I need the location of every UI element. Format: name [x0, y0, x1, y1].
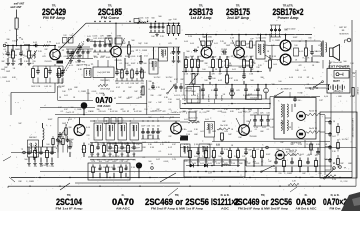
svg-text:0.01: 0.01 [105, 161, 109, 163]
svg-text:1.5K: 1.5K [90, 154, 95, 156]
svg-text:R,, 2.2K: R,, 2.2K [341, 181, 349, 183]
svg-text:330: 330 [148, 81, 151, 83]
svg-text:2.2K: 2.2K [216, 163, 221, 165]
svg-text:0.1: 0.1 [213, 109, 216, 111]
svg-text:FM AGC: FM AGC [98, 104, 112, 108]
svg-text:100: 100 [212, 78, 215, 80]
svg-text:0.5P: 0.5P [116, 87, 121, 89]
svg-text:4.7K: 4.7K [137, 63, 142, 65]
svg-text:2SC185: 2SC185 [114, 60, 122, 62]
svg-text:MONITOR: MONITOR [340, 34, 350, 36]
svg-text:0.02: 0.02 [125, 83, 129, 85]
svg-text:amF ANT: amF ANT [10, 5, 22, 9]
svg-text:4.7K: 4.7K [47, 42, 52, 44]
svg-text:0.01: 0.01 [214, 43, 218, 45]
svg-text:1.5K: 1.5K [110, 91, 115, 93]
svg-text:0.01: 0.01 [266, 113, 270, 115]
svg-text:Rw 3.3K: Rw 3.3K [220, 125, 228, 127]
svg-text:BATT: BATT [333, 80, 340, 83]
svg-text:0.001: 0.001 [131, 56, 136, 58]
svg-text:560: 560 [120, 154, 123, 156]
svg-text:0.1: 0.1 [71, 65, 74, 67]
svg-text:0.02: 0.02 [332, 136, 336, 138]
svg-text:0.5P: 0.5P [42, 165, 47, 167]
svg-text:6.8K: 6.8K [170, 117, 175, 119]
svg-text:6.8K: 6.8K [316, 144, 321, 146]
svg-text:6.8K: 6.8K [94, 57, 99, 59]
svg-text:FM 3rd IF Amp & MW 2nd IF Amp: FM 3rd IF Amp & MW 2nd IF Amp [238, 206, 288, 210]
svg-text:0.001: 0.001 [240, 59, 245, 61]
svg-text:0.01: 0.01 [205, 119, 209, 121]
svg-text:(UM-2)×4: (UM-2)×4 [333, 90, 343, 93]
svg-text:0.001: 0.001 [208, 144, 213, 146]
svg-text:5P03 WhA: 5P03 WhA [100, 88, 110, 91]
svg-text:CvrtD.041D: CvrtD.041D [256, 37, 267, 40]
svg-text:330: 330 [150, 95, 153, 97]
svg-text:220: 220 [127, 65, 130, 67]
svg-text:100P: 100P [125, 56, 130, 58]
svg-text:2SC469 or 2SC56: 2SC469 or 2SC56 [145, 197, 209, 207]
svg-text:GHM: GHM [117, 36, 122, 38]
svg-text:0.01: 0.01 [200, 163, 204, 165]
svg-text:TONE: TONE [297, 93, 303, 95]
svg-text:0.04: 0.04 [190, 43, 194, 45]
svg-text:100P: 100P [131, 63, 136, 65]
svg-text:3.3K: 3.3K [130, 83, 135, 85]
svg-text:2.2K: 2.2K [234, 156, 239, 158]
svg-text:AOC: AOC [221, 206, 230, 210]
svg-text:100P: 100P [274, 155, 279, 157]
svg-text:2.2K: 2.2K [188, 36, 193, 38]
svg-text:0.02: 0.02 [246, 47, 250, 49]
svg-text:0.001: 0.001 [234, 57, 239, 59]
svg-text:1.5K: 1.5K [190, 56, 195, 58]
svg-text:0A70×2: 0A70×2 [323, 197, 347, 207]
svg-text:Cw870: Cw870 [183, 95, 185, 101]
svg-text:AL SWITCH: AL SWITCH [281, 88, 292, 91]
svg-text:Rw10 470: Rw10 470 [188, 118, 198, 120]
svg-text:330: 330 [96, 109, 99, 111]
svg-text:0.1: 0.1 [27, 49, 30, 51]
svg-text:220: 220 [141, 83, 144, 85]
svg-text:FM Conv: FM Conv [101, 16, 119, 20]
svg-text:4.7K: 4.7K [102, 156, 107, 158]
svg-text:1.5K: 1.5K [298, 77, 303, 79]
svg-text:L, 10.7MC: L, 10.7MC [339, 139, 349, 141]
svg-text:100P: 100P [112, 161, 117, 163]
svg-text:AM Det & AGC: AM Det & AGC [296, 206, 318, 210]
svg-text:100: 100 [218, 156, 221, 158]
svg-text:3.3K: 3.3K [224, 149, 229, 151]
svg-text:0A90: 0A90 [296, 197, 316, 207]
svg-text:220: 220 [117, 167, 120, 169]
svg-text:FM Det: FM Det [330, 206, 341, 210]
svg-text:Cw8 1.041D: Cw8 1.041D [284, 29, 296, 31]
svg-text:Cw13P FM: Cw13P FM [75, 62, 85, 64]
svg-text:100: 100 [138, 111, 141, 113]
svg-text:C,, 10MF: C,, 10MF [282, 149, 291, 151]
svg-text:C,, 10MF: C,, 10MF [0, 77, 8, 79]
svg-text:0.02: 0.02 [93, 38, 97, 40]
svg-text:CwC1.1P: CwC1.1P [66, 112, 75, 114]
svg-text:0.001: 0.001 [218, 111, 223, 113]
svg-text:0.05: 0.05 [81, 149, 85, 151]
svg-text:1.5K: 1.5K [298, 144, 303, 146]
svg-text:0.05: 0.05 [126, 156, 130, 158]
svg-text:C,, 10MF: C,, 10MF [12, 49, 21, 51]
svg-text:220: 220 [278, 173, 281, 175]
svg-text:330: 330 [297, 100, 300, 102]
svg-text:100P: 100P [48, 119, 53, 121]
svg-text:0.01: 0.01 [174, 95, 178, 97]
svg-text:0.04: 0.04 [142, 142, 146, 144]
svg-text:100P: 100P [128, 97, 133, 99]
svg-text:0.04: 0.04 [161, 89, 165, 91]
svg-text:C,, 10MF: C,, 10MF [242, 65, 251, 67]
svg-text:C,, 10MF: C,, 10MF [224, 65, 233, 67]
svg-text:0.02: 0.02 [156, 159, 160, 161]
svg-text:0.001: 0.001 [92, 36, 98, 38]
svg-text:100P: 100P [226, 45, 231, 47]
svg-text:C,, 10MF: C,, 10MF [284, 173, 293, 175]
svg-text:100P: 100P [245, 44, 250, 46]
svg-text:0.02: 0.02 [144, 56, 148, 58]
svg-text:330: 330 [242, 111, 245, 113]
svg-text:0.01: 0.01 [184, 119, 188, 121]
svg-text:FM 2nd IF Amp & MW 1st IF Amp: FM 2nd IF Amp & MW 1st IF Amp [151, 206, 203, 210]
svg-text:R,, 2.2K: R,, 2.2K [307, 144, 315, 146]
svg-text:3.3K: 3.3K [150, 147, 155, 149]
svg-text:0.1: 0.1 [267, 129, 270, 131]
svg-text:6V: 6V [353, 73, 356, 75]
svg-text:2.2K: 2.2K [62, 134, 67, 136]
svg-text:100P: 100P [6, 71, 11, 73]
svg-text:0.001: 0.001 [98, 38, 103, 40]
svg-text:0.02: 0.02 [150, 111, 154, 113]
svg-text:1st AF Amp: 1st AF Amp [191, 16, 212, 20]
svg-text:100: 100 [70, 107, 73, 109]
svg-text:100: 100 [294, 45, 297, 47]
svg-text:3.3K: 3.3K [194, 144, 199, 146]
svg-text:3.3K: 3.3K [272, 56, 277, 58]
svg-text:0.04: 0.04 [224, 131, 228, 133]
svg-text:560: 560 [148, 161, 151, 163]
svg-text:0.04: 0.04 [30, 63, 34, 65]
svg-text:0.01: 0.01 [232, 69, 236, 71]
svg-text:6.8K: 6.8K [234, 80, 239, 82]
svg-text:2.2K: 2.2K [36, 86, 41, 88]
svg-text:0.04: 0.04 [6, 81, 10, 83]
svg-text:0.01: 0.01 [200, 131, 204, 133]
svg-text:Cw0.1MF: Cw0.1MF [207, 94, 209, 103]
svg-text:3.3K: 3.3K [326, 177, 331, 179]
svg-text:Cw28Pw 1P: Cw28Pw 1P [171, 112, 182, 114]
svg-text:0.1: 0.1 [257, 149, 260, 151]
svg-text:0.01: 0.01 [262, 127, 266, 129]
svg-text:0.02: 0.02 [112, 57, 116, 59]
svg-text:10.7MC: 10.7MC [165, 77, 173, 79]
svg-text:R,, 2.2K: R,, 2.2K [246, 56, 254, 58]
svg-text:560: 560 [290, 144, 293, 146]
svg-text:0.1: 0.1 [255, 129, 258, 131]
svg-text:C,, 10MF: C,, 10MF [272, 40, 281, 42]
svg-text:4.7K: 4.7K [184, 144, 189, 146]
svg-text:2.2K: 2.2K [172, 159, 177, 161]
svg-text:Cw(L)10P FM: Cw(L)10P FM [97, 72, 110, 74]
svg-text:CwWATTS: CwWATTS [196, 93, 199, 103]
svg-text:1.5K: 1.5K [186, 134, 191, 136]
svg-text:6.8K: 6.8K [310, 89, 315, 91]
svg-text:220: 220 [318, 173, 321, 175]
svg-text:100: 100 [202, 69, 205, 71]
svg-text:EXT POWER: EXT POWER [329, 64, 351, 68]
svg-text:0.02: 0.02 [236, 131, 240, 133]
svg-text:2SC469 or 2SC56: 2SC469 or 2SC56 [234, 197, 292, 207]
svg-text:0.1: 0.1 [143, 157, 146, 159]
svg-text:0.01: 0.01 [8, 57, 12, 59]
svg-text:3.3K: 3.3K [211, 90, 216, 92]
svg-text:R,, 2.2K: R,, 2.2K [84, 51, 92, 53]
svg-text:R,, 2.2K: R,, 2.2K [197, 61, 205, 63]
svg-text:R,, 2.2K: R,, 2.2K [154, 131, 162, 133]
svg-text:100P: 100P [293, 37, 298, 39]
svg-text:2.2K: 2.2K [149, 63, 154, 65]
svg-text:560: 560 [143, 63, 146, 65]
svg-text:Rw10 7K: Rw10 7K [309, 128, 318, 130]
svg-text:TP,: TP, [344, 168, 347, 170]
svg-text:2.2K: 2.2K [109, 167, 114, 169]
svg-text:0.001: 0.001 [164, 161, 169, 163]
svg-text:TP,: TP, [91, 64, 94, 66]
svg-text:Rw47K: Rw47K [220, 95, 222, 102]
svg-text:C,, 10MF: C,, 10MF [74, 109, 82, 111]
svg-text:TP,: TP, [4, 43, 8, 45]
svg-text:BAR ANT: BAR ANT [29, 136, 38, 139]
svg-text:PICKER: PICKER [356, 87, 358, 95]
svg-text:560: 560 [152, 126, 155, 128]
svg-text:0.04: 0.04 [248, 131, 252, 133]
svg-text:0.01: 0.01 [64, 95, 68, 97]
svg-text:Rw10 7K: Rw10 7K [309, 111, 318, 113]
svg-text:0A70: 0A70 [112, 197, 134, 207]
svg-text:2.2K: 2.2K [332, 179, 337, 181]
svg-text:0.05: 0.05 [102, 111, 106, 113]
svg-text:0.01: 0.01 [300, 154, 304, 156]
svg-text:2.2K: 2.2K [230, 38, 235, 40]
svg-text:C,, 10MF: C,, 10MF [26, 181, 35, 183]
svg-text:2.2K: 2.2K [192, 163, 197, 165]
svg-text:C,, 10MF: C,, 10MF [139, 50, 148, 52]
svg-text:LAST IF RATIO DET: LAST IF RATIO DET [351, 118, 354, 138]
svg-text:2nd AF Amp: 2nd AF Amp [227, 16, 249, 20]
svg-text:0.001: 0.001 [188, 131, 193, 133]
svg-text:0.001: 0.001 [64, 56, 69, 58]
svg-text:0.05: 0.05 [208, 163, 212, 165]
svg-text:6.8K: 6.8K [216, 144, 221, 146]
svg-text:AM AGC: AM AGC [116, 206, 131, 210]
svg-text:6.8K: 6.8K [316, 154, 321, 156]
svg-text:0.1: 0.1 [4, 49, 7, 51]
svg-text:100P: 100P [176, 99, 181, 101]
svg-text:0.001: 0.001 [6, 63, 11, 65]
svg-text:330: 330 [190, 67, 193, 69]
svg-text:3.3K: 3.3K [131, 167, 136, 169]
svg-text:0.05: 0.05 [87, 36, 91, 38]
svg-text:Power Amp: Power Amp [278, 16, 299, 20]
svg-text:100: 100 [86, 93, 89, 95]
svg-text:0.04: 0.04 [184, 41, 188, 43]
svg-text:FM 1st IF Amp: FM 1st IF Amp [56, 206, 83, 210]
svg-text:0.05: 0.05 [124, 161, 128, 163]
svg-text:Cmat00: Cmat00 [250, 96, 258, 99]
svg-text:0.04: 0.04 [142, 72, 146, 74]
svg-text:0.1: 0.1 [120, 63, 123, 65]
svg-text:3.3K: 3.3K [137, 56, 142, 58]
svg-text:0.04: 0.04 [273, 64, 277, 66]
svg-text:2SC469: 2SC469 [249, 136, 256, 138]
svg-text:330: 330 [276, 149, 279, 151]
svg-text:0.001: 0.001 [255, 163, 260, 165]
svg-text:R,, 2.2K: R,, 2.2K [113, 156, 121, 158]
svg-text:R,, 2.2K: R,, 2.2K [99, 144, 106, 146]
svg-text:FM RF Amp: FM RF Amp [43, 16, 65, 20]
svg-text:0.05: 0.05 [44, 86, 48, 88]
svg-text:C,, 10MF: C,, 10MF [96, 93, 105, 95]
svg-text:100P: 100P [106, 57, 111, 59]
svg-text:R,, 2.2K: R,, 2.2K [149, 89, 157, 91]
svg-text:1.5K: 1.5K [231, 163, 236, 165]
svg-text:2SC429: 2SC429 [44, 61, 52, 63]
svg-text:4.7K: 4.7K [101, 167, 106, 169]
svg-text:0.05: 0.05 [308, 154, 312, 156]
svg-text:0.1: 0.1 [19, 59, 22, 61]
svg-text:TP.: TP. [151, 164, 154, 166]
svg-text:0.001: 0.001 [138, 18, 144, 20]
svg-text:100: 100 [114, 111, 117, 113]
svg-text:0.05: 0.05 [244, 149, 248, 151]
svg-text:2SC104: 2SC104 [56, 197, 82, 207]
svg-text:0.05: 0.05 [100, 57, 104, 59]
svg-text:100P: 100P [266, 154, 271, 156]
svg-text:0.04: 0.04 [192, 59, 196, 61]
svg-text:0.5P: 0.5P [160, 117, 165, 119]
svg-text:TwV: TwV [248, 110, 253, 112]
svg-text:10.7MC: 10.7MC [153, 77, 161, 79]
